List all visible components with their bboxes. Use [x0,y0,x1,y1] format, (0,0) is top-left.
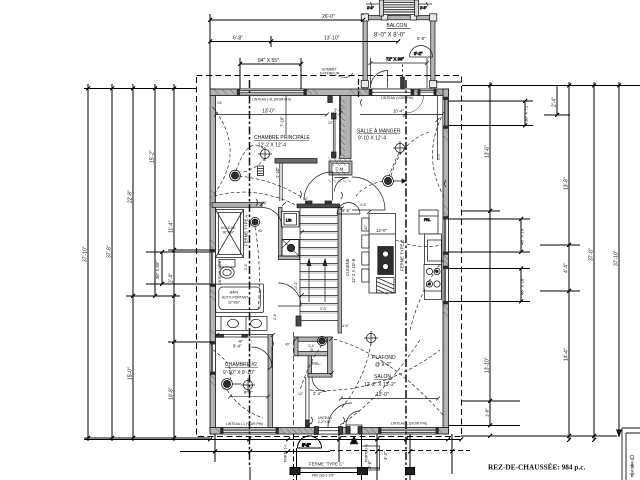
SAM dim 10'-4" [360,109,443,117]
stairs outline [300,208,339,321]
svg-text:22'-8": 22'-8" [128,190,134,203]
misc slash ticks [215,202,371,427]
svg-text:CUISINE: CUISINE [345,258,350,276]
vanity [216,317,268,331]
svg-text:7'-10": 7'-10" [280,116,285,127]
svg-text:CHAMBRE PRINCIPALE: CHAMBRE PRINCIPALE [254,135,310,141]
arc CP dot up [236,145,264,171]
svg-text:2'-4": 2'-4" [273,312,277,320]
svg-text:CHAMBRE #2: CHAMBRE #2 [225,362,257,368]
window right wall 30x72 [443,100,449,127]
douche shower [216,210,244,258]
svg-text:40": 40" [258,229,264,233]
svg-text:12": 12" [328,121,334,125]
svg-text:26'-0": 26'-0" [322,14,335,20]
arc kitchen right [410,260,443,330]
window top wall small [420,89,434,96]
arc SAM window to fan [433,112,445,197]
balcony right rail [431,16,435,90]
kitchen stools [362,218,369,282]
top dim 26'-0" [208,14,365,89]
right dim 30x72 bracket [449,99,534,128]
left dim labels [83,150,175,400]
top dim 84x55 [238,58,303,89]
svg-text:1'-8": 1'-8" [485,408,490,417]
arc salon big 3 [340,340,420,425]
svg-text:10'-4": 10'-4" [393,109,404,114]
svg-text:30" X 72": 30" X 72" [524,104,529,122]
arc chambre2 [213,350,231,380]
arc 9'-5" hall top [337,203,360,215]
left dim line 37'-10" [86,84,90,441]
svg-text:10'-2": 10'-2" [294,281,298,290]
property dashed rectangle [197,76,462,437]
left connector top [84,88,196,90]
right dim labels [485,97,620,417]
right connector top [462,85,640,87]
left dim line 11'-4"/2'-4"/10'-8" [168,84,212,441]
wall hatch marks [211,90,449,434]
kitchen counter right [425,234,442,300]
left dim line 22'-8"/15'-0" [126,84,180,441]
wall CP/SAM vertical [340,96,352,159]
kitchen sink dark [378,247,394,275]
svg-text:2-2"X10": 2-2"X10" [318,420,332,424]
svg-text:9'-8": 9'-8" [244,390,253,395]
truss stub top wall [358,79,360,97]
svg-text:SALON: SALON [374,374,391,380]
svg-text:9'-5": 9'-5" [342,208,351,213]
svg-text:9'-10" X 9'-10": 9'-10" X 9'-10" [223,370,255,376]
svg-text:@ 9'-2": @ 9'-2" [375,362,392,368]
light chambre2 [222,379,241,390]
svg-text:10'-8": 10'-8" [169,387,175,400]
arc CP dot to door [239,176,303,198]
svg-text:LINTEAU 2-2x8: LINTEAU 2-2x8 [218,261,222,285]
door bottom wall hall [315,427,343,435]
douche labels [221,226,236,235]
arc kitchen island [396,240,441,247]
svg-text:EXTÉRIEUR: EXTÉRIEUR [320,71,340,76]
svg-text:13'-10": 13'-10" [324,36,340,42]
chambre2 dim 9'-8" [228,390,270,399]
left dim 36x55 bracket [146,250,210,286]
door bath arc [262,208,282,228]
svg-text:PORTE 2-8: PORTE 2-8 [365,444,369,462]
svg-text:6'-8": 6'-8" [233,36,243,42]
fan chambre2 [241,378,255,392]
svg-text:32"X60": 32"X60" [228,301,241,305]
arc CP fan link [241,158,265,173]
svg-text:40": 40" [310,346,314,352]
balcony arc 9'-2" [410,46,433,57]
CP dim 13'-6" [214,109,329,117]
TAIL left wall [308,356,312,377]
bottom second dim line [180,450,470,454]
svg-text:2'-2": 2'-2" [244,262,248,270]
fan CP [258,147,272,161]
misc tiny dims corridor/rooms [244,152,441,352]
salon dim 13'-0" [339,392,440,401]
svg-text:13'-0": 13'-0" [376,392,389,398]
door SAM/kitchen arc [352,177,385,210]
right dim line 37'-8" [592,82,596,442]
right dim line 13'-6"/13'-10" [449,82,521,428]
svg-text:1'-10": 1'-10" [275,167,280,178]
closet LIN [282,212,300,228]
SAM vertical dim line [436,96,440,160]
svg-text:37'-10": 37'-10" [614,250,620,266]
hall dims 40"/2'-4" [285,343,322,397]
entry arrow symbol [284,436,369,462]
svg-text:8'-4": 8'-4" [233,344,242,349]
svg-text:15'-0": 15'-0" [128,367,134,380]
arc 9'-2" bottom [298,436,322,448]
svg-text:AUTO-PORTANT: AUTO-PORTANT [222,296,248,300]
svg-text:13'-10": 13'-10" [485,357,491,373]
arc SAM top sweep [391,132,429,176]
door chambre2 arc [252,347,273,368]
truss detail verticals [215,434,452,480]
svg-text:FERME TYPE A: FERME TYPE A [244,215,249,246]
svg-text:4'-6": 4'-6" [360,203,368,207]
closet dim 12" [328,121,334,125]
svg-text:40": 40" [364,224,368,230]
svg-text:TAIL.: TAIL. [311,361,321,366]
svg-text:BAIN: BAIN [230,291,238,295]
svg-text:1/2: 1/2 [217,101,222,105]
stairs treads [300,216,339,312]
svg-text:C.M.: C.M. [336,167,345,172]
door front arc [346,411,360,425]
light SAM [383,176,406,187]
balcony left rail [363,16,367,90]
arc SAM dot sweep left [356,181,383,196]
kitchen dishwasher hatch [377,278,395,295]
wall bath top [212,203,262,208]
linteau label bottom door [318,416,332,424]
svg-text:13'-0": 13'-0" [376,228,387,233]
svg-text:11'-4": 11'-4" [169,220,175,233]
svg-text:LINTEAU L4L (VOIR PHI): LINTEAU L4L (VOIR PHI) [252,98,291,102]
arc CP big sweep [214,192,296,205]
door bottom hall arc [328,403,352,427]
svg-text:9'-10 X 12'-4: 9'-10 X 12'-4 [358,136,386,142]
sommet exterieur note [320,68,353,78]
arc salon big 2 [310,350,440,391]
hall right wall vertical [328,337,333,377]
balcony door swing arc [371,71,388,88]
ferme type A line [249,80,251,467]
svg-text:12": 12" [298,392,304,396]
kitchen counter box [428,240,442,261]
chambre2 dims 48/8'-4" [233,340,244,349]
chambre2 label [223,362,258,376]
stairs bottom dark mark [296,316,301,326]
wall chambre2 right vertical [268,335,273,428]
right dim line 37'-10" [617,82,621,436]
window top wall 84x55 [240,89,305,96]
truss bottom chords [298,468,380,473]
svg-text:2'-8": 2'-8" [420,6,428,10]
wall A door jamb left [306,201,313,207]
svg-text:36" X 55": 36" X 55" [155,261,160,279]
svg-text:PORTE 3-0: PORTE 3-0 [284,444,288,462]
CP closet bar [275,159,317,164]
kitchen island [369,214,396,294]
closet partition line [328,96,336,159]
CP dim 7'-10" rotated [280,96,287,136]
window right wall kitchen 2 [443,269,449,302]
svg-text:2'-4": 2'-4" [169,273,175,283]
light CP [230,170,241,181]
svg-text:13'-6": 13'-6" [485,145,491,158]
CP dim 1'-10" rotated [275,167,280,178]
kitchen fridge [419,210,438,234]
svg-text:9'-2": 9'-2" [414,51,423,56]
kitchen dim 13'-0" [369,228,396,234]
svg-text:PAV.2x6-2-7/8": PAV.2x6-2-7/8" [312,474,335,478]
exterior wall left [210,89,216,434]
title block marks [630,455,635,477]
stairs right wall [338,208,341,334]
switch symbols [256,99,446,424]
fan SAM [393,141,407,155]
svg-text:LINTEAU L1 (VOIR PHI): LINTEAU L1 (VOIR PHI) [226,422,263,426]
svg-text:84" X 55": 84" X 55" [258,58,279,64]
top dim 6'-8"/13'-10" [208,36,400,47]
svg-text:SALLE À MANGER: SALLE À MANGER [357,128,401,135]
svg-text:FERME "TYPE C": FERME "TYPE C" [309,462,344,467]
door CP arc [304,172,333,201]
left dim line 15'-2" [153,84,157,298]
window right wall kitchen 1 [443,219,449,252]
title block box [622,428,640,480]
light hall bottom [317,336,326,345]
svg-text:DOUCHE: DOUCHE [221,226,236,230]
svg-text:13'-8": 13'-8" [564,177,570,190]
svg-text:FRI.: FRI. [424,218,430,222]
svg-text:2'-4": 2'-4" [552,97,558,107]
shaft box [282,240,299,257]
svg-text:FERME TYPE B: FERME TYPE B [400,239,405,271]
toilet [219,260,235,279]
left connector bottom [84,437,210,439]
door CM arc [335,178,349,192]
svg-text:3'-0": 3'-0" [320,307,328,311]
balcony door opening [372,89,411,96]
right dim line 13'-8"/4'-4"/14'-4" [540,82,580,442]
svg-text:9'-2": 9'-2" [302,443,311,448]
salle a manger label [357,128,401,142]
wall under LIN [279,256,300,260]
hall closet mid wall [297,352,330,356]
svg-text:13'-0": 13'-0" [262,109,275,115]
arc corridor [255,227,259,310]
cuisine label [345,258,356,283]
exterior wall right [443,89,449,434]
right dim 2'-4" line [544,86,570,118]
closet dim 2'-4" [334,96,343,157]
left dim line 37'-8" [110,84,114,441]
chambre principale label [254,135,310,149]
window left wall chambre2 [210,344,216,372]
balcony corner posts [361,14,437,88]
balcony steps [379,0,418,16]
wall chambre2 top (thin) [216,334,268,337]
svg-text:37'-8": 37'-8" [107,245,113,258]
stairs up arrows [307,259,327,302]
svg-text:REZ-DE-CHAUSSÉE: 984 p.c.: REZ-DE-CHAUSSÉE: 984 p.c. [488,462,585,472]
fan salon [364,331,378,345]
hidden beam dashed chambre2 [293,332,295,428]
CP closet side wall [280,163,282,201]
svg-text:12'-2 X 10'-8: 12'-2 X 10'-8 [351,258,356,283]
porte detail box [362,446,380,470]
svg-text:PLAFOND: PLAFOND [372,355,396,361]
svg-text:40": 40" [285,343,291,347]
salon label [364,374,396,388]
window bottom wall chambre2 [223,428,276,435]
top dim labels [233,14,340,64]
arc hall [300,345,322,390]
thermostat box CP [258,166,264,176]
exterior wall bottom [210,428,449,435]
svg-text:LINTEAU (VOIR PHI): LINTEAU (VOIR PHI) [381,96,413,100]
window bottom wall salon [381,428,436,435]
arc chambre2 low [227,390,263,418]
svg-text:4'-4": 4'-4" [564,263,570,273]
hall closet left stub [294,337,298,356]
stairs tread double lines [300,217,339,313]
plafond label [372,355,396,368]
closet CM box [329,161,352,175]
ferme type C label [309,462,344,478]
svg-text:14'-4": 14'-4" [564,348,570,361]
bottom main dim line [84,434,617,442]
svg-text:36"x60": 36"x60" [223,231,235,235]
svg-text:37'-10": 37'-10" [83,246,89,262]
front door bottom salon [346,425,362,434]
wall A door jamb right [325,201,332,207]
stairs top landing bar [297,204,340,208]
arc salon big 1 [334,339,443,415]
window left wall bath 36x55 [210,252,216,284]
svg-text:8'-0" X 8'-0": 8'-0" X 8'-0" [374,33,405,39]
door arc salle a manger from balcony [406,96,424,114]
bottom rotated dims [367,451,388,469]
exterior wall top [210,89,449,96]
svg-text:2'-8": 2'-8" [367,6,375,10]
TAIL bottom wall [308,374,332,378]
svg-text:48" X 16": 48" X 16" [520,227,525,245]
svg-text:48" X 16": 48" X 16" [520,277,525,295]
arc salon vert [340,343,371,410]
ferme type B line [405,80,407,480]
kitchen stove [424,265,442,292]
door corridor bottom arc [278,283,301,306]
svg-text:5'-8": 5'-8" [417,36,426,41]
balcony labels [374,23,426,41]
svg-text:LINTEAU L1(VOIR PHI): LINTEAU L1(VOIR PHI) [391,422,427,426]
svg-text:72" X 96": 72" X 96" [386,57,404,62]
bain labels [222,291,248,305]
door TAIL arc [312,377,327,392]
svg-text:2'-4": 2'-4" [313,391,322,396]
arc CP left window [213,107,231,194]
balcony step dims [366,2,432,10]
arc SAM fan to dot [389,153,399,176]
svg-text:37'-8": 37'-8" [589,248,595,261]
window jamb marks [210,89,449,434]
hall closet top wall [294,337,330,341]
hall/salon wall to bottom [306,377,310,428]
bain tub [216,284,264,313]
truss dark pads [290,468,415,475]
svg-text:15'-2": 15'-2" [150,150,156,163]
svg-text:4'-2": 4'-2" [383,451,388,460]
balcony door centerline [401,64,405,88]
light bath [250,217,259,226]
svg-text:4'-6": 4'-6" [342,324,350,328]
balcony top rail [363,16,435,20]
wall corridor left of stairs [279,208,283,259]
svg-text:LIN: LIN [286,219,292,223]
balcony door dim 72x96 [369,57,430,89]
right dim 48x16 brackets [449,217,531,304]
